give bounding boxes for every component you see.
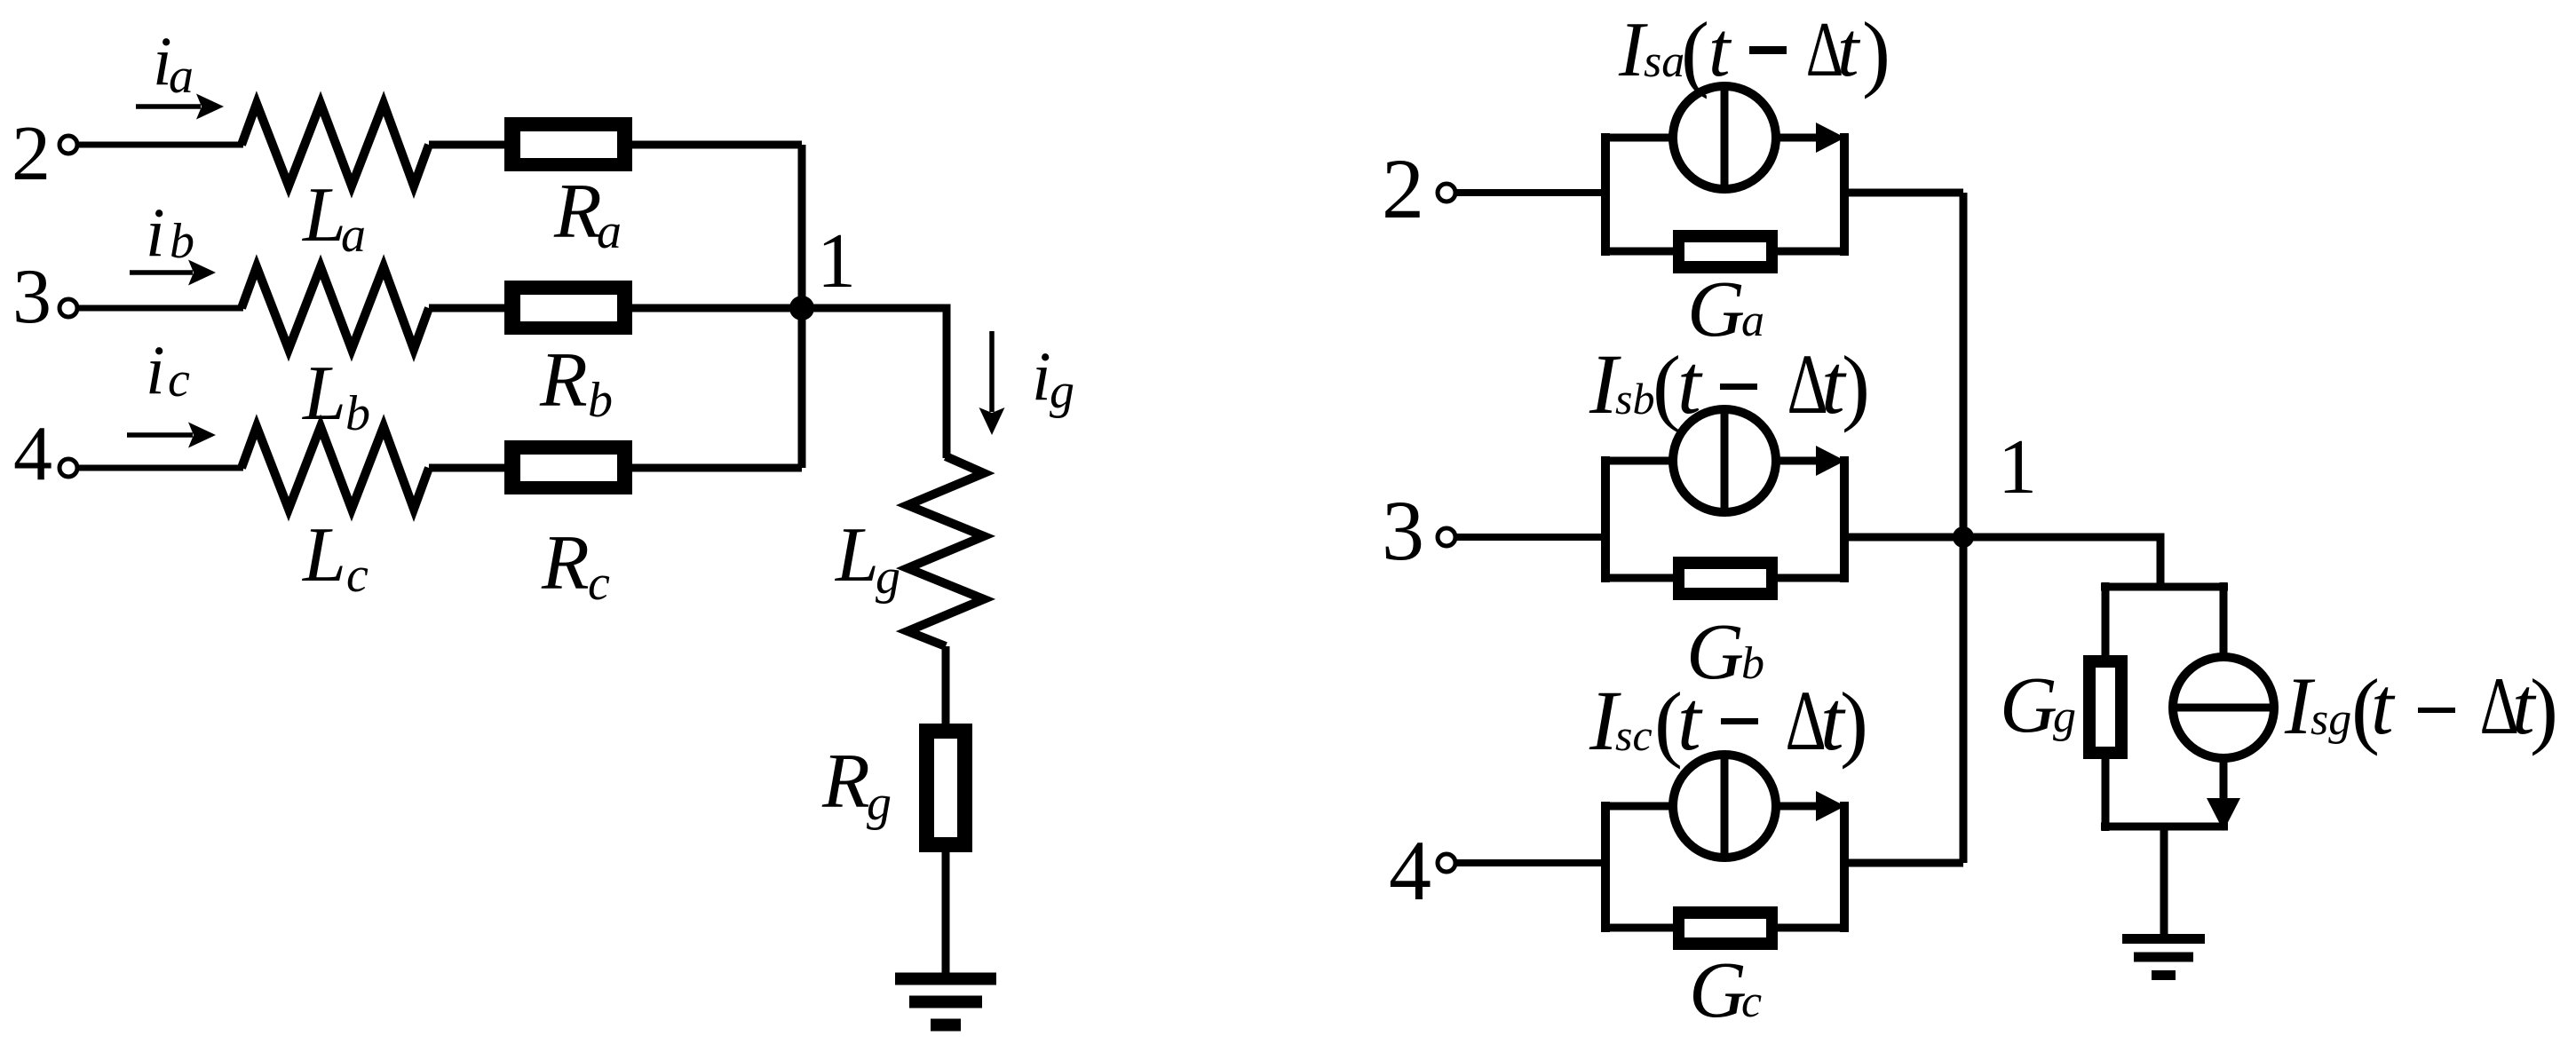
svg-text:sa: sa [1644,36,1684,87]
svg-text:g: g [867,776,892,831]
wire left bar of block a [1601,133,1610,256]
label L_b [301,351,370,441]
terminal 3 (left circuit port) [59,299,77,317]
svg-text:t: t [2371,660,2396,751]
wire top branch to source Isa [1601,134,1675,142]
label G_b [1686,608,1764,696]
wire terminal 2 to La [77,142,243,148]
svg-text:G: G [2000,661,2057,749]
svg-text:sb: sb [1615,374,1654,423]
svg-text:i: i [146,331,165,408]
source arrow of Isc [1777,791,1845,821]
svg-text:R: R [553,169,602,255]
svg-text:L: L [834,512,879,598]
ground (right circuit) [2122,934,2205,980]
terminal 3 (right circuit port) [1438,528,1455,546]
conductance Gg [2083,655,2128,759]
current source Isb(t-dt) [1673,409,1776,512]
svg-text:(: ( [1681,4,1709,99]
svg-text:1: 1 [817,218,856,305]
label G_a [1687,265,1764,353]
wire left bar of block b [1601,456,1610,582]
label R_b [539,337,613,428]
svg-text:i: i [146,194,165,271]
wire node 1 to ground branch (left) [802,308,947,458]
inductor Lb [242,267,429,350]
label R_a [553,169,622,259]
conductance Ga [1673,230,1778,273]
svg-text:c: c [1741,977,1762,1027]
svg-text:t: t [1837,7,1861,93]
wire bottom bar of Gg/Isg block [2101,823,2228,831]
wire Rb to node 1 [632,305,802,312]
svg-text:t: t [1677,673,1703,768]
svg-text:2: 2 [12,111,51,197]
resistor Ra [504,117,632,171]
wire Gg to bottom bar [2102,759,2110,831]
source arrow of Isb [1777,446,1845,476]
wire top branch to source Isb [1601,457,1675,465]
svg-text:c: c [168,352,190,407]
wire Gc to right bar [1776,924,1849,932]
label i_c [146,331,190,408]
wire top bar of Gg/Isg block [2101,583,2228,591]
source arrow of Isa [1777,123,1845,153]
label G_c [1689,946,1762,1034]
terminal 2 (left circuit port) [59,136,77,154]
wire Rg to ground [942,852,950,975]
svg-text:): ) [1862,4,1890,99]
wire terminal 2 to parallel block [1455,189,1605,196]
wire top bar to Gg [2102,582,2110,657]
svg-text:g: g [1050,364,1074,419]
svg-text:b: b [588,373,613,428]
svg-text:L: L [301,172,346,258]
conductance Gb [1673,557,1778,600]
wire Gb to right bar [1776,574,1849,582]
svg-text:R: R [539,337,588,423]
wire Rc to bus [632,464,802,472]
bus wire joining three branches (right) [1960,193,1968,863]
label G_g [2000,661,2076,749]
svg-text:a: a [169,49,194,104]
svg-text:): ) [1842,338,1870,433]
junction node 1 (left) [789,296,814,320]
label R_g [821,739,892,831]
svg-text:c: c [346,548,369,603]
label i_b [146,194,194,271]
wire right bar of block b [1840,456,1849,582]
svg-text:b: b [1741,638,1764,689]
ground (left circuit) [895,973,996,1032]
label L_c [301,512,369,603]
wire Lc to Rc [429,464,506,472]
wire left bar of block c [1601,802,1610,932]
label I_sb(t - delta t) [1589,336,1870,433]
svg-text:sc: sc [1615,710,1653,760]
svg-text:b: b [170,214,194,269]
svg-text:): ) [1840,675,1868,770]
wire bottom branch to conductance Ga [1601,248,1675,256]
wire block c to bus [1849,859,1963,867]
svg-text:1: 1 [1998,424,2037,510]
wire top bar to Isg [2220,582,2228,659]
svg-text:R: R [821,739,870,825]
svg-text:t: t [1708,7,1732,93]
current source Isg(t-dt) [2173,657,2274,758]
svg-text:a: a [341,208,366,263]
label I_sa(t - delta t) [1618,4,1890,99]
svg-text:a: a [597,204,622,259]
bus wire joining three branches (left) [798,145,806,468]
current source Isc(t-dt) [1673,755,1776,858]
wire La to Ra [429,141,506,149]
wire Lb to Rb [429,305,506,312]
svg-text:L: L [301,512,346,598]
current arrow ia [136,94,224,120]
label I_sc(t - delta t) [1589,673,1868,770]
svg-text:3: 3 [12,254,52,340]
svg-text:t: t [1677,336,1703,431]
wire top branch to source Isc [1601,803,1675,811]
svg-text:g: g [876,550,900,605]
svg-text:c: c [588,556,610,611]
svg-text:b: b [345,386,370,441]
svg-text:): ) [2530,661,2558,756]
terminal 4 (right circuit port) [1438,854,1455,872]
wire node 1 to Gg/Isg block [1963,537,2160,587]
current arrow ib [130,260,216,286]
current source Isa(t-dt) [1673,86,1776,189]
svg-text:sg: sg [2310,694,2351,745]
svg-text:g: g [2053,692,2076,742]
current arrow ig [979,331,1005,435]
conductance Gc [1673,906,1778,950]
wire bottom branch to conductance Gc [1601,924,1675,932]
wire Ra to bus [632,141,802,149]
resistor Rc [504,440,632,494]
label I_sg(t - delta t) [2284,660,2558,756]
label L_g [834,512,900,605]
svg-text:3: 3 [1382,483,1424,578]
wire block a to bus [1849,189,1963,197]
wire terminal 3 to Lb [77,305,243,312]
label i_g [1032,337,1074,419]
wire bottom branch to conductance Gb [1601,574,1675,582]
wire terminal 3 to parallel block [1455,534,1605,541]
label R_c [541,520,610,611]
svg-text:G: G [1689,946,1747,1034]
wire Ga to right bar [1776,248,1849,256]
wire Lg to Rg [942,646,950,726]
source arrow of Isg [2207,756,2240,831]
label L_a [301,172,366,263]
wire block to ground (right) [2160,827,2168,936]
wire block b to bus [1849,534,1963,542]
svg-text:i: i [1032,337,1051,415]
terminal 2 (right circuit port) [1438,184,1455,202]
inductor La [242,104,429,186]
resistor Rg [919,724,972,852]
resistor Rb [504,281,632,335]
terminal 4 (left circuit port) [59,459,77,477]
junction node 1 (right) [1953,526,1974,548]
svg-text:a: a [1741,296,1764,346]
wire right bar of block c [1840,802,1849,932]
inductor Lc [242,427,429,510]
svg-text:4: 4 [13,411,52,497]
wire terminal 4 to parallel block [1455,859,1605,866]
inductor Lg [908,456,984,646]
label i_a [153,22,194,104]
svg-text:4: 4 [1389,823,1431,918]
svg-text:2: 2 [1382,141,1424,236]
wire right bar of block a [1840,133,1849,256]
wire terminal 4 to Lc [77,465,243,471]
current arrow ic [127,423,216,448]
svg-text:R: R [541,520,590,606]
